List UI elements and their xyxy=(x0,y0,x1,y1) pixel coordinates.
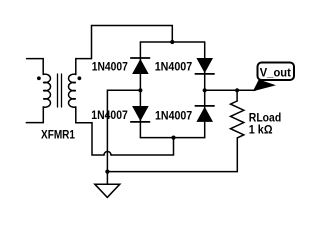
junction mid-right xyxy=(203,88,207,92)
svg-text:1 kΩ: 1 kΩ xyxy=(249,123,273,137)
node V_out callout xyxy=(253,63,294,92)
wire primary bottom stub xyxy=(26,107,43,123)
wire mid-left to ground drop xyxy=(107,90,140,171)
svg-text:1N4007: 1N4007 xyxy=(155,60,193,74)
wire bridge top rail xyxy=(140,41,204,43)
junction bottom rail xyxy=(171,136,175,140)
wire bridge right column xyxy=(204,42,206,138)
junction top rail xyxy=(170,40,174,44)
wire resistor top lead xyxy=(236,90,238,101)
wire bridge bottom rail xyxy=(140,137,204,139)
diode D1 1N4007 top-left xyxy=(131,58,150,74)
wire bridge left column xyxy=(139,42,141,138)
svg-text:1N4007: 1N4007 xyxy=(92,59,128,73)
wire secondary bottom jog xyxy=(76,107,104,155)
junction ground xyxy=(105,170,109,174)
svg-text:V_out: V_out xyxy=(260,66,291,80)
wire primary top stub xyxy=(27,59,44,75)
transformer XFMR1 primary winding xyxy=(43,74,50,107)
junction mid-left xyxy=(138,88,142,92)
diode D3 1N4007 bottom-left xyxy=(131,106,150,122)
wire hop over ground wire xyxy=(104,152,111,155)
diode D4 1N4007 bottom-right xyxy=(195,106,214,122)
transformer XFMR1 secondary winding xyxy=(69,74,76,107)
svg-text:1N4007: 1N4007 xyxy=(155,108,192,122)
wire mid-right to V_out xyxy=(205,89,255,91)
svg-text:1N4007: 1N4007 xyxy=(91,108,128,122)
wire ground rail to resistor bottom xyxy=(107,138,237,172)
transformer XFMR1 core xyxy=(58,74,62,107)
wire hop to bottom rail riser xyxy=(111,138,174,155)
phase dot primary xyxy=(37,76,41,80)
diode D2 1N4007 top-right xyxy=(195,58,214,74)
resistor RLoad zigzag xyxy=(231,101,244,138)
wire secondary top to bridge top xyxy=(76,26,173,75)
ground xyxy=(95,172,120,198)
junction resistor top xyxy=(235,88,239,92)
phase dot secondary xyxy=(78,76,82,80)
svg-text:XFMR1: XFMR1 xyxy=(41,128,75,142)
